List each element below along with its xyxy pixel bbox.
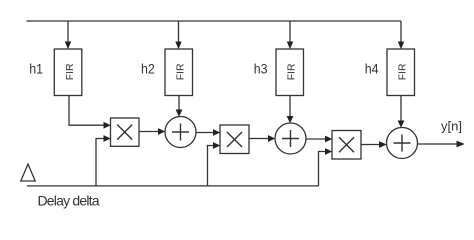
wire: M2 output to adder S2 bbox=[249, 135, 275, 142]
wire: delta riser into multiplier M2 lower input bbox=[208, 142, 221, 186]
wire: FIR h3 output into adder S2 top bbox=[287, 96, 294, 124]
adder S1 bbox=[165, 117, 196, 148]
wire: FIR h2 output into adder S1 top bbox=[176, 96, 183, 117]
wire: S1 output to multiplier M2 upper input bbox=[196, 129, 220, 136]
svg-text:h2: h2 bbox=[141, 61, 155, 77]
FIR filter block h1 bbox=[54, 49, 82, 96]
wire: tap into FIR h1 bbox=[65, 21, 71, 49]
wire: S2 output to multiplier M3 upper input bbox=[306, 136, 332, 143]
multiplier M2 bbox=[220, 125, 249, 154]
svg-text:Delay delta: Delay delta bbox=[38, 193, 100, 209]
svg-text:FIR: FIR bbox=[65, 63, 76, 80]
adder S2 bbox=[275, 123, 306, 154]
multiplier M1 bbox=[111, 118, 140, 146]
wire: M1 output to adder S1 bbox=[139, 128, 165, 135]
wire: delay delta bus bbox=[27, 185, 319, 187]
wire: FIR h4 output into adder S3 top bbox=[398, 96, 405, 128]
wire: delta riser into multiplier M1 lower input bbox=[96, 135, 111, 186]
wire: FIR h1 output to multiplier M1 upper input bbox=[69, 96, 111, 129]
wire: output y[n] bbox=[418, 141, 465, 148]
svg-text:FIR: FIR bbox=[398, 63, 409, 80]
wire: M3 output to adder S3 bbox=[361, 141, 387, 148]
wire: input distribution bus bbox=[27, 20, 402, 22]
delay element: triangle symbol bbox=[21, 164, 35, 181]
FIR filter block h3 bbox=[276, 49, 304, 96]
svg-text:h3: h3 bbox=[254, 61, 268, 77]
svg-text:h1: h1 bbox=[29, 61, 43, 77]
adder S3 bbox=[387, 128, 418, 159]
svg-text:h4: h4 bbox=[365, 61, 379, 77]
svg-text:FIR: FIR bbox=[287, 63, 298, 80]
FIR filter block h2 bbox=[165, 49, 193, 96]
svg-text:FIR: FIR bbox=[176, 63, 187, 80]
wire: tap into FIR h3 bbox=[287, 21, 293, 49]
multiplier M3 bbox=[332, 131, 361, 160]
svg-text:y[n]: y[n] bbox=[441, 119, 462, 134]
wire: tap into FIR h4 bbox=[398, 21, 404, 49]
FIR filter block h4 bbox=[387, 49, 415, 96]
wire: tap into FIR h2 bbox=[175, 21, 181, 49]
wire: delta riser into multiplier M3 lower input bbox=[319, 148, 333, 186]
